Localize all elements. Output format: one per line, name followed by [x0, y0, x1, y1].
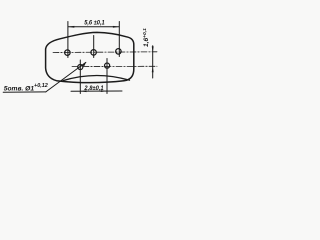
extension line hole C vertical	[118, 22, 120, 57]
svg-text:2,8±0,1: 2,8±0,1	[83, 85, 103, 92]
hole B	[91, 50, 97, 56]
dimension line 5,6	[69, 26, 119, 28]
background	[0, 0, 160, 119]
hole E	[105, 63, 110, 68]
flange inner bottom arc	[63, 75, 130, 80]
leader shelf under note text	[3, 91, 46, 93]
arrow 1,6 bottom (pointing up at bottom ext)	[152, 66, 154, 72]
centerline hole B vertical	[93, 36, 95, 58]
dimension line 2,8 with overruns	[71, 90, 122, 92]
leader line	[46, 62, 86, 92]
arrow 2,8 right (pointing right at ext)	[101, 90, 107, 92]
dim text 1,6+0,1 rotated	[142, 28, 150, 47]
package body outline	[46, 32, 134, 82]
extension line hole D vertical	[79, 60, 81, 94]
hole D	[78, 64, 83, 69]
extension line hole A vertical	[67, 22, 69, 58]
arrow 2,8 left (pointing left at ext)	[81, 90, 87, 92]
centerline top row	[53, 51, 157, 54]
centerline bottom row	[72, 65, 157, 67]
dimension line 1,6 vertical	[152, 46, 154, 78]
leader arrowhead	[82, 62, 86, 67]
svg-text:5,6 ±0,1: 5,6 ±0,1	[84, 20, 105, 27]
arrow 1,6 top (pointing down at top ext)	[152, 46, 154, 52]
arrow 5,6 left	[68, 26, 74, 28]
arrow 5,6 right	[113, 26, 119, 28]
hole C	[116, 49, 122, 55]
extension line hole E vertical	[106, 59, 108, 94]
hole A	[65, 50, 71, 56]
